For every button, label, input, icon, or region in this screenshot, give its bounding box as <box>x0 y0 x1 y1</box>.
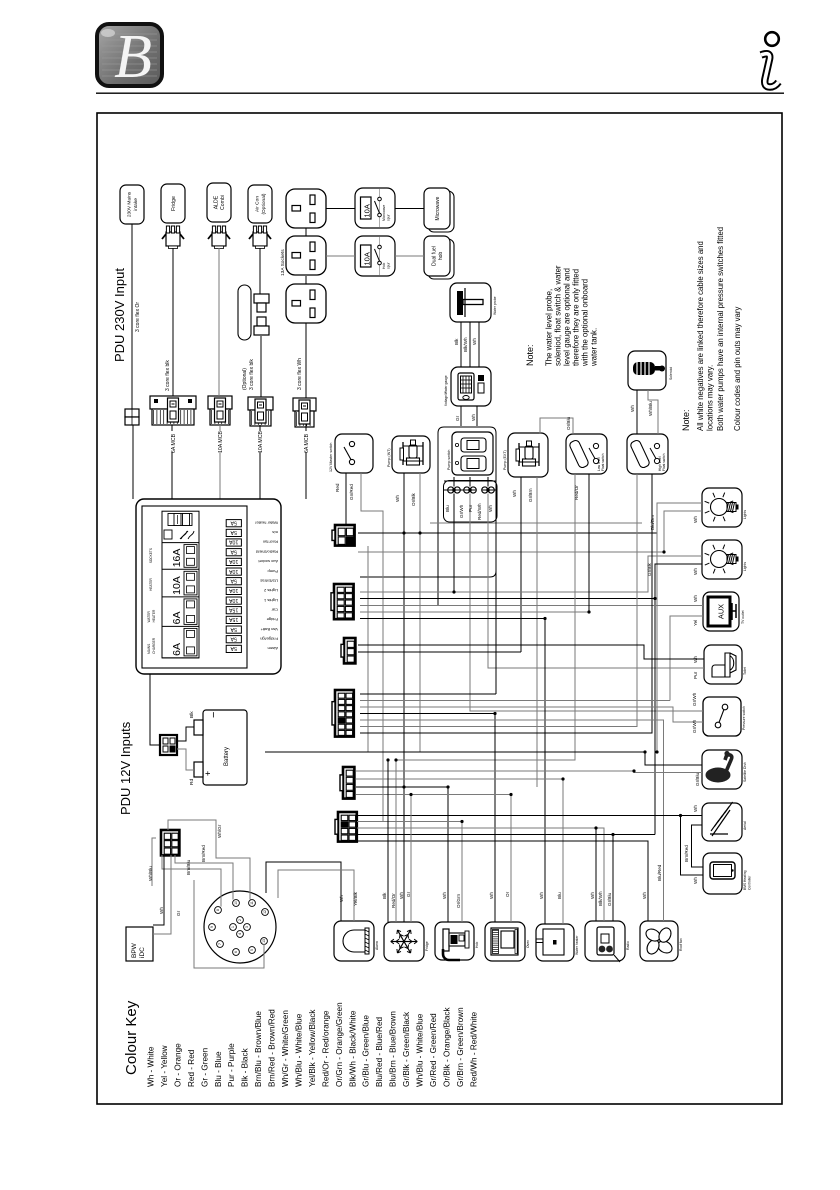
wire bus C1 row <box>358 532 657 534</box>
label 10A MCB 2 <box>258 431 264 453</box>
svg-text:Blu: Blu <box>445 505 450 512</box>
wire C4 row3 pressure2 <box>360 707 703 722</box>
svg-text:Car: Car <box>271 607 278 612</box>
13-pin road connector <box>204 891 276 963</box>
junction 454,592 <box>452 590 455 593</box>
svg-text:Or/Blu: Or/Blu <box>566 417 571 430</box>
wire 13pin return <box>194 880 264 968</box>
BPW iDC box <box>126 927 153 961</box>
Satellite dish box <box>702 750 747 789</box>
svg-text:Brn/Red: Brn/Red <box>684 845 689 862</box>
svg-text:Gr/Wh: Gr/Wh <box>692 719 697 733</box>
wire GnRed master <box>361 473 383 822</box>
svg-text:Wh/Blu - White/Blue: Wh/Blu - White/Blue <box>294 1013 303 1087</box>
connector C6 <box>335 812 357 842</box>
plug fridge <box>162 226 184 249</box>
Solenoid box <box>628 351 673 390</box>
label 3 core flex blk <box>165 360 171 391</box>
svg-text:10A: 10A <box>363 252 372 265</box>
svg-text:therefore they are only fitted: therefore they are only fitted <box>571 269 580 366</box>
svg-text:10A: 10A <box>229 568 239 574</box>
svg-text:Gr/Blu: Gr/Blu <box>695 773 700 786</box>
svg-text:3 core flex Or: 3 core flex Or <box>135 302 141 332</box>
wire highfloat down2 <box>360 474 652 733</box>
svg-text:Or - Orange: Or - Orange <box>173 1043 182 1087</box>
svg-text:Wh: Wh <box>472 338 477 345</box>
svg-text:Pump: Pump <box>267 569 278 574</box>
svg-text:Radio: Radio <box>626 941 630 950</box>
Lights box 2 <box>702 540 747 579</box>
wire lights2b trunk <box>654 599 656 835</box>
wire bullet bus a <box>444 489 476 491</box>
bullet junction 1 <box>448 487 461 493</box>
wire battery to pdu <box>150 674 160 745</box>
svg-text:Fridge: Fridge <box>425 941 429 951</box>
svg-text:Blk/Wh: Blk/Wh <box>598 891 603 906</box>
svg-text:soleniod, float switch & water: soleniod, float switch & water <box>553 265 562 366</box>
svg-text:Roof fan: Roof fan <box>263 540 278 545</box>
Microwave box <box>424 188 454 232</box>
junction 411,794.5 <box>409 793 412 796</box>
svg-text:water tank.: water tank. <box>589 328 598 367</box>
wire lights1 w2 <box>664 511 702 552</box>
TV outlet box <box>703 592 745 631</box>
svg-text:Wh: Wh <box>339 895 344 902</box>
Pressure switch box <box>703 697 746 736</box>
wire C7 WhBlu <box>148 838 156 886</box>
svg-text:Wh/Blu - White/Blue: Wh/Blu - White/Blue <box>416 1013 425 1087</box>
svg-text:Wh: Wh <box>693 595 698 602</box>
label PDU 230V Input <box>112 268 127 362</box>
junction 448,787 <box>446 785 449 788</box>
svg-text:Brn/Blu - Brown/Blue: Brn/Blu - Brown/Blue <box>254 1011 263 1087</box>
10A MCB (fridge) <box>208 396 232 425</box>
svg-text:6A MCB: 6A MCB <box>304 433 310 453</box>
svg-text:Blu/Brn: Blu/Brn <box>650 514 655 530</box>
svg-text:Colour codes and pin outs may: Colour codes and pin outs may vary <box>733 307 742 431</box>
svg-text:6: 6 <box>234 951 238 953</box>
svg-text:Blu: Blu <box>557 892 562 899</box>
wire probe Blk <box>454 322 461 367</box>
svg-text:SOCKETS: SOCKETS <box>149 548 153 563</box>
wire alarm wh <box>266 862 341 921</box>
svg-text:(Optional): (Optional) <box>261 193 267 214</box>
svg-text:Combi: Combi <box>220 195 226 210</box>
wire bullet1 Blu <box>453 494 455 593</box>
svg-text:Red/Or: Red/Or <box>391 893 396 908</box>
svg-text:Gr: Gr <box>406 891 411 897</box>
svg-text:10A: 10A <box>229 539 239 545</box>
svg-text:Wh/Gr - White/Green: Wh/Gr - White/Green <box>281 1010 290 1087</box>
wire fridge flex <box>172 248 174 396</box>
svg-text:Gr/Red - Green/Red: Gr/Red - Green/Red <box>429 1013 438 1087</box>
svg-text:Colour Key: Colour Key <box>123 1000 140 1075</box>
svg-text:MAINS: MAINS <box>147 644 151 654</box>
svg-text:3: 3 <box>245 926 249 928</box>
13A socket 2 <box>286 236 326 275</box>
Water probe box <box>450 283 497 322</box>
Roof fan box <box>640 921 683 961</box>
svg-text:Brn/Red - Brown/Red: Brn/Red - Brown/Red <box>268 1009 277 1087</box>
wire pumpext Wh <box>520 477 522 652</box>
connector C5 <box>340 767 354 799</box>
svg-text:Or/Grn - Orange/Green: Or/Grn - Orange/Green <box>335 1002 344 1087</box>
svg-text:Yel - Yellow: Yel - Yellow <box>160 1045 169 1087</box>
svg-text:10A: 10A <box>171 576 183 595</box>
Voltage/Water gauge box <box>444 367 491 406</box>
junction 664,552 <box>662 550 665 553</box>
wire C5 row2 whtr <box>356 779 563 924</box>
wire C7 WhGr <box>168 820 250 900</box>
wire probe Wh <box>472 322 479 367</box>
svg-text:10A: 10A <box>363 204 372 217</box>
svg-text:15A: 15A <box>229 606 239 612</box>
wire highfloat down <box>360 474 637 727</box>
svg-text:5A: 5A <box>230 577 237 583</box>
svg-text:Wh: Wh <box>693 805 698 812</box>
svg-text:Or/Blk: Or/Blk <box>411 493 416 506</box>
svg-text:Gr/Wh: Gr/Wh <box>692 692 697 706</box>
svg-text:3 core flex blk: 3 core flex blk <box>249 359 255 390</box>
svg-text:230V Mains: 230V Mains <box>126 191 132 217</box>
junction 589,612 <box>587 610 590 613</box>
svg-text:Wh: Wh <box>488 505 493 512</box>
microwave fused spur 10A <box>355 188 395 228</box>
Low level float switch <box>566 434 607 474</box>
wire C2 row3 tv <box>360 605 703 607</box>
svg-text:Blk - Black: Blk - Black <box>241 1047 250 1087</box>
Pump (INT) box <box>387 436 430 473</box>
Battery box <box>194 710 247 785</box>
junction 657,752 <box>655 750 658 753</box>
svg-text:Wh: Wh <box>471 414 476 421</box>
svg-text:Solenoid: Solenoid <box>669 367 673 380</box>
svg-text:Controller: Controller <box>748 875 752 890</box>
wire bullet2 GrWh <box>470 494 703 712</box>
Pump switch box <box>447 432 493 475</box>
svg-text:8: 8 <box>216 909 220 911</box>
svg-text:Aux socket: Aux socket <box>258 559 278 564</box>
svg-text:Red/Or - Red/orange: Red/Or - Red/orange <box>321 1010 330 1087</box>
svg-text:Gr/Blu - Green/Blue: Gr/Blu - Green/Blue <box>362 1015 371 1087</box>
junction 545,618.5 <box>543 617 546 620</box>
ALDE Combi box <box>207 183 231 222</box>
svg-text:Water heater: Water heater <box>254 520 278 525</box>
svg-text:13A Sockets: 13A Sockets <box>280 249 286 276</box>
svg-text:Van Batt+: Van Batt+ <box>260 627 278 632</box>
svg-text:Lights: Lights <box>743 562 747 571</box>
svg-text:Radio/shield: Radio/shield <box>256 549 278 554</box>
junction 596,828 <box>594 826 597 829</box>
hob fused spur 10A <box>355 236 395 276</box>
wire fan wh <box>357 841 648 921</box>
aircon cable loop <box>238 285 269 340</box>
label Rd <box>189 779 195 785</box>
junction 645,752 <box>643 750 646 753</box>
pump circuit loop <box>360 427 497 606</box>
svg-text:5A: 5A <box>230 626 237 632</box>
colour key <box>123 1000 478 1087</box>
wire alarm yelblk <box>278 870 354 921</box>
wire mcb stubs <box>133 424 306 499</box>
svg-text:Lights 1: Lights 1 <box>263 598 278 603</box>
wire C2 row1 lights2 <box>360 556 702 592</box>
svg-text:Satellite Dish: Satellite Dish <box>743 762 747 782</box>
wire mains intake <box>131 224 133 409</box>
svg-text:PDU 12V Inputs: PDU 12V Inputs <box>118 721 133 815</box>
svg-text:Gr/Blk: Gr/Blk <box>647 563 652 576</box>
svg-text:Blu - Blue: Blu - Blue <box>214 1051 223 1087</box>
svg-text:hob: hob <box>438 252 444 261</box>
junction 495,713.5 <box>493 712 496 715</box>
svg-text:3 core flex blk: 3 core flex blk <box>165 360 171 391</box>
svg-text:Microwave: Microwave <box>382 205 386 221</box>
wire alde flex <box>218 248 220 396</box>
Alarm box <box>334 921 379 961</box>
plug aircon <box>249 226 271 249</box>
svg-text:Wh/Blu: Wh/Blu <box>648 401 653 416</box>
svg-text:iDC: iDC <box>139 947 146 958</box>
Fridge box (12V) <box>384 922 429 961</box>
wire spur2-hob <box>395 255 424 257</box>
svg-text:Red: Red <box>335 483 340 492</box>
wire radio3 drop <box>612 835 614 922</box>
svg-text:5A: 5A <box>230 548 237 554</box>
wire C6 row1b radio1 <box>595 828 597 921</box>
connector C4 <box>332 690 354 737</box>
wire tv yel <box>670 616 703 701</box>
svg-text:AUX: AUX <box>717 604 726 619</box>
svg-text:Brn/Blu: Brn/Blu <box>186 859 191 875</box>
svg-text:Gr/Blk - Green/Black: Gr/Blk - Green/Black <box>402 1011 411 1087</box>
svg-text:Blu/Red - Blue/Red: Blu/Red - Blue/Red <box>375 1016 384 1087</box>
svg-text:Roof fan: Roof fan <box>679 938 683 951</box>
svg-text:spur: spur <box>387 262 391 269</box>
Toilet box <box>704 645 747 684</box>
svg-text:Lights: Lights <box>743 510 747 519</box>
wire C3 row2 <box>358 651 521 653</box>
label 6A MCB 2 <box>304 433 310 453</box>
svg-text:10: 10 <box>234 901 238 905</box>
label 3 core flex Wh <box>297 358 303 390</box>
svg-text:Blu/Red: Blu/Red <box>657 864 662 881</box>
wire lowfloat OrBlu <box>540 418 573 434</box>
svg-text:11: 11 <box>250 901 254 905</box>
svg-text:5A: 5A <box>230 519 237 525</box>
svg-text:Wh: Wh <box>399 892 404 899</box>
svg-text:All white negatives are linked: All white negatives are linked therefore… <box>696 241 705 431</box>
svg-text:Blk: Blk <box>382 892 387 899</box>
junction 396,760 <box>394 758 397 761</box>
svg-text:Lights 2: Lights 2 <box>263 588 278 593</box>
svg-text:15A: 15A <box>229 616 239 622</box>
svg-text:Gr: Gr <box>176 910 181 916</box>
10A MCB (alde) <box>248 397 273 426</box>
wire C1 row2 bus <box>358 551 664 553</box>
wire C7 BrnRed <box>175 845 233 900</box>
wire C2 row2 lights2b <box>360 564 702 599</box>
svg-text:2: 2 <box>238 919 242 921</box>
junction 462,821.5 <box>460 820 463 823</box>
connector C3 <box>341 638 355 663</box>
wire C6 row4 radio3 <box>357 834 655 836</box>
svg-text:Gr: Gr <box>455 415 460 421</box>
wire left trunk <box>367 546 369 752</box>
svg-text:Or: Or <box>505 891 510 897</box>
svg-text:Red - Red: Red - Red <box>187 1049 196 1087</box>
svg-text:Voltage/Water gauge: Voltage/Water gauge <box>444 375 448 406</box>
svg-text:Yel/Blk - Yellow/Black: Yel/Blk - Yellow/Black <box>308 1009 317 1087</box>
svg-text:Gr/Brn - Green/Brown: Gr/Brn - Green/Brown <box>456 1007 465 1087</box>
PDU fuse/breaker panel <box>136 499 281 674</box>
svg-text:Blk/Wh: Blk/Wh <box>463 337 468 352</box>
logo B (Bailey) <box>97 23 162 91</box>
wire fridge gr <box>410 795 412 923</box>
svg-text:Gr/Blu: Gr/Blu <box>607 893 612 906</box>
svg-text:BMS Heating: BMS Heating <box>743 870 747 890</box>
plug alde <box>208 226 230 249</box>
svg-text:Or/Grn: Or/Grn <box>456 894 461 908</box>
junction 388,760 <box>386 758 389 761</box>
wire bullet wh down <box>495 490 497 694</box>
svg-text:7: 7 <box>218 943 222 945</box>
svg-text:Pur: Pur <box>693 671 698 679</box>
High level float switch <box>627 434 668 474</box>
svg-text:Wh: Wh <box>539 892 544 899</box>
wire socket2-spur2 <box>326 255 355 257</box>
wire bullet1 down <box>453 477 455 487</box>
mains inline connector <box>125 409 139 425</box>
svg-text:5A: 5A <box>230 529 237 535</box>
connector C7 (road light) <box>161 830 179 855</box>
wire Red master <box>345 473 347 525</box>
svg-text:Battery: Battery <box>224 747 230 766</box>
wire spur1-microwave <box>395 208 424 210</box>
svg-text:Wh: Wh <box>693 516 698 523</box>
wire C7 BrnBlu <box>162 855 221 907</box>
svg-text:5: 5 <box>250 949 254 951</box>
svg-text:Gn/Red: Gn/Red <box>349 484 354 500</box>
wire C2 row5 <box>360 618 545 620</box>
svg-text:Wh: Wh <box>442 892 447 899</box>
svg-text:Gr/Brn: Gr/Brn <box>528 488 533 502</box>
note 2 <box>681 227 742 431</box>
Fridge 230V box <box>161 184 185 223</box>
wire C5 row4 oven2 <box>356 795 511 923</box>
junction 634,771 <box>632 769 635 772</box>
svg-text:The water level probe,: The water level probe, <box>544 289 553 366</box>
svg-text:3 core flex Wh: 3 core flex Wh <box>297 358 303 390</box>
svg-text:5A: 5A <box>230 635 237 641</box>
Pump (EXT) box <box>503 433 548 477</box>
svg-text:Both water pumps have an inter: Both water pumps have an internal pressu… <box>716 227 725 431</box>
wire probe BlkWh <box>463 322 470 367</box>
svg-text:Aerial: Aerial <box>743 821 747 830</box>
svg-text:locations may vary.: locations may vary. <box>705 365 714 431</box>
svg-text:Fridge: Fridge <box>171 196 177 211</box>
svg-text:BPW: BPW <box>131 942 138 958</box>
svg-text:6A: 6A <box>171 643 183 656</box>
svg-text:12V Master switch: 12V Master switch <box>329 443 333 472</box>
svg-text:Rd: Rd <box>189 779 195 785</box>
label optional 3core <box>242 359 255 390</box>
Radio box <box>585 921 630 962</box>
svg-text:Red/Wh: Red/Wh <box>477 503 482 520</box>
svg-text:16A: 16A <box>171 549 183 568</box>
wire bms branch <box>681 816 704 876</box>
svg-text:Toilet: Toilet <box>743 667 747 675</box>
13A socket 3 <box>286 284 326 323</box>
diagram border <box>97 113 782 1104</box>
svg-text:PDU 230V Input: PDU 230V Input <box>112 268 127 362</box>
bullet junction 2 <box>464 487 477 493</box>
wire battery neg <box>177 727 194 741</box>
svg-text:CHARGER: CHARGER <box>152 637 156 654</box>
svg-text:Yel: Yel <box>693 620 698 626</box>
svg-text:WATER: WATER <box>147 611 151 623</box>
svg-text:ALDE: ALDE <box>213 195 219 209</box>
wire fridge blk <box>387 760 389 922</box>
svg-text:n/a: n/a <box>272 530 278 535</box>
svg-text:Fridge: Fridge <box>266 617 278 622</box>
wire lowfloat wh down <box>588 474 590 612</box>
svg-text:10A: 10A <box>229 558 239 564</box>
svg-text:Lts/Extras: Lts/Extras <box>260 578 278 583</box>
svg-text:B: B <box>114 23 152 91</box>
svg-text:spur: spur <box>387 214 391 221</box>
6A MCB (sockets) <box>293 398 316 427</box>
svg-text:−: − <box>208 712 220 718</box>
wire bus y752 <box>265 752 702 765</box>
svg-text:level gauge are optional and: level gauge are optional and <box>562 268 571 366</box>
label 13A Sockets <box>280 249 286 276</box>
svg-text:Blu/Brn - Blue/Brown: Blu/Brn - Blue/Brown <box>389 1011 398 1087</box>
header rule <box>96 92 784 94</box>
svg-text:Hob: Hob <box>475 942 479 948</box>
6A MCB (mains intake) <box>150 396 196 425</box>
svg-text:intake: intake <box>133 198 139 211</box>
label PDU 12V Inputs <box>118 721 133 815</box>
230V Mains intake box <box>120 185 144 224</box>
svg-text:9: 9 <box>210 926 214 928</box>
svg-text:Red/Wh - Red/White: Red/Wh - Red/White <box>469 1011 478 1087</box>
svg-text:Hob: Hob <box>382 263 386 269</box>
wire aerial wh <box>681 815 703 817</box>
wire lights1 w1 <box>657 503 702 752</box>
wire bullet2 down <box>469 477 471 487</box>
wire labels <box>335 401 700 908</box>
wire C4 row1 <box>360 693 496 695</box>
wire C7 Gr <box>153 855 181 934</box>
Air-Con (Optional) box <box>248 185 272 223</box>
svg-text:Red/Or: Red/Or <box>574 485 579 500</box>
wire aerial2 brnred <box>692 825 704 867</box>
svg-text:Pump (INT): Pump (INT) <box>387 448 391 467</box>
wire C7 Wh <box>153 855 164 925</box>
svg-text:with the optional onboard: with the optional onboard <box>580 279 589 367</box>
wire bullet bus b <box>482 489 496 491</box>
junction 563,779 <box>561 777 564 780</box>
Aerial box <box>702 802 747 841</box>
svg-text:Wh: Wh <box>159 907 164 914</box>
wire bus row 523 <box>430 522 642 524</box>
junction 680.5,815.5 <box>679 814 682 817</box>
svg-text:Brn/Red: Brn/Red <box>201 845 206 862</box>
svg-text:5A: 5A <box>230 645 237 651</box>
wire C4 row5 fanBluRed <box>360 720 664 921</box>
junction 655,598.5 <box>653 597 656 600</box>
wire aircon flex <box>260 248 261 397</box>
